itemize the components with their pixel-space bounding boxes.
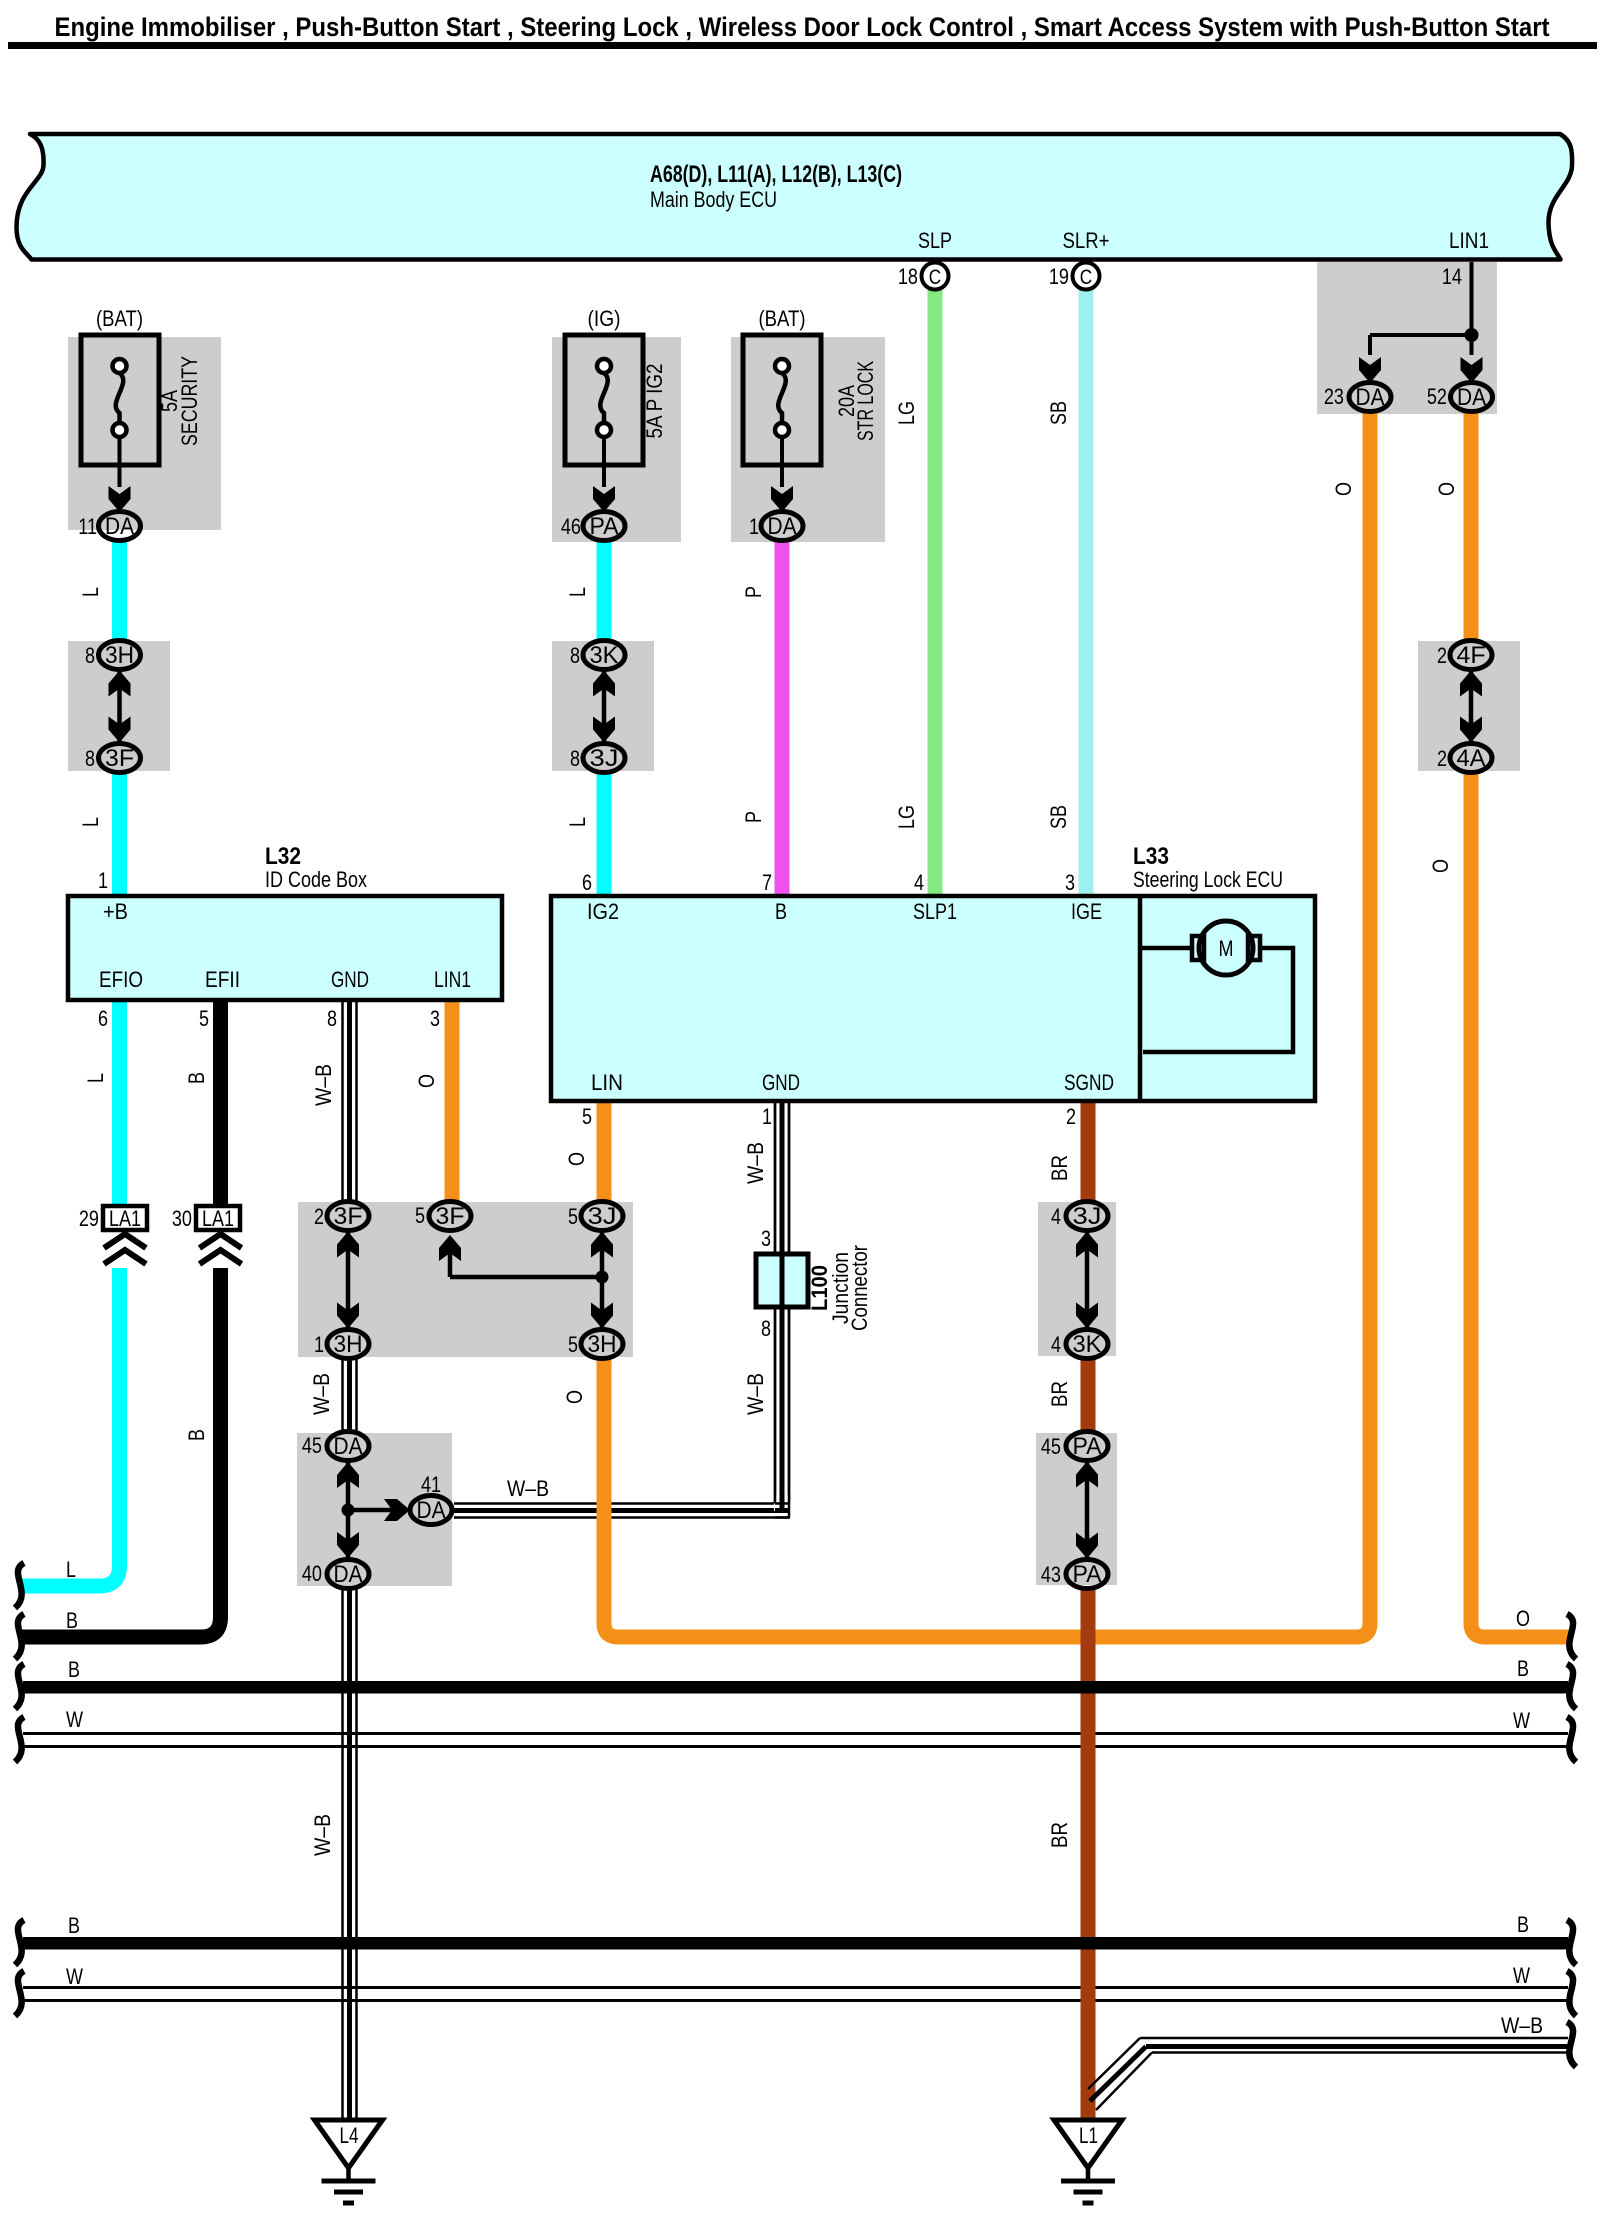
svg-text:5: 5 bbox=[568, 1204, 578, 1229]
svg-text:4: 4 bbox=[914, 870, 924, 895]
svg-text:IGE: IGE bbox=[1071, 899, 1102, 924]
svg-text:L: L bbox=[66, 1557, 76, 1582]
svg-text:5: 5 bbox=[582, 1104, 592, 1129]
svg-text:B: B bbox=[184, 1429, 209, 1441]
svg-text:L: L bbox=[565, 587, 590, 597]
svg-text:O: O bbox=[562, 1390, 587, 1404]
svg-text:DA: DA bbox=[768, 513, 797, 540]
svg-text:LIN1: LIN1 bbox=[1449, 228, 1489, 253]
svg-text:45: 45 bbox=[302, 1433, 322, 1458]
svg-text:W: W bbox=[66, 1707, 83, 1732]
svg-text:B: B bbox=[68, 1913, 80, 1938]
svg-text:Engine Immobiliser , Push-Butt: Engine Immobiliser , Push-Button Start ,… bbox=[55, 12, 1550, 42]
svg-text:1: 1 bbox=[98, 868, 108, 893]
svg-text:3: 3 bbox=[761, 1226, 771, 1251]
svg-text:O: O bbox=[564, 1152, 589, 1166]
svg-text:1: 1 bbox=[762, 1104, 772, 1129]
svg-text:46: 46 bbox=[561, 514, 581, 539]
svg-text:PA: PA bbox=[1073, 1433, 1102, 1460]
svg-text:4A: 4A bbox=[1457, 745, 1486, 772]
svg-text:O: O bbox=[1331, 482, 1356, 496]
svg-text:GND: GND bbox=[331, 967, 369, 992]
svg-text:(IG): (IG) bbox=[588, 306, 621, 331]
svg-text:C: C bbox=[1080, 266, 1092, 289]
svg-text:8: 8 bbox=[761, 1316, 771, 1341]
svg-text:BR: BR bbox=[1047, 1155, 1072, 1181]
svg-text:O: O bbox=[1434, 482, 1459, 496]
svg-text:L: L bbox=[78, 817, 103, 827]
svg-text:L: L bbox=[83, 1073, 108, 1083]
svg-text:PA: PA bbox=[1073, 1561, 1102, 1588]
svg-text:8: 8 bbox=[85, 746, 95, 771]
svg-text:45: 45 bbox=[1041, 1434, 1061, 1459]
svg-text:W–B: W–B bbox=[310, 1814, 335, 1856]
svg-text:B: B bbox=[1517, 1656, 1529, 1681]
svg-text:B: B bbox=[1517, 1912, 1529, 1937]
svg-text:18: 18 bbox=[898, 264, 918, 289]
svg-text:W–B: W–B bbox=[507, 1476, 549, 1501]
svg-text:SLP1: SLP1 bbox=[913, 899, 957, 924]
svg-text:SECURITY: SECURITY bbox=[177, 356, 202, 446]
svg-text:BR: BR bbox=[1047, 1822, 1072, 1848]
svg-text:LG: LG bbox=[894, 805, 919, 829]
svg-text:O: O bbox=[414, 1074, 439, 1088]
svg-text:DA: DA bbox=[334, 1433, 363, 1460]
svg-text:3J: 3J bbox=[588, 1203, 617, 1230]
svg-text:PA: PA bbox=[590, 513, 619, 540]
svg-text:EFIO: EFIO bbox=[99, 967, 143, 992]
svg-text:M: M bbox=[1219, 936, 1234, 961]
svg-text:5A P IG2: 5A P IG2 bbox=[642, 364, 667, 439]
svg-text:W–B: W–B bbox=[311, 1064, 336, 1106]
svg-text:LIN1: LIN1 bbox=[434, 967, 471, 992]
svg-text:ID Code Box: ID Code Box bbox=[265, 867, 367, 892]
svg-text:L32: L32 bbox=[265, 843, 301, 870]
svg-text:SLP: SLP bbox=[918, 228, 952, 253]
svg-text:3H: 3H bbox=[105, 642, 134, 669]
svg-text:7: 7 bbox=[762, 870, 772, 895]
svg-text:Main Body ECU: Main Body ECU bbox=[650, 187, 777, 212]
svg-text:C: C bbox=[929, 266, 941, 289]
svg-text:8: 8 bbox=[570, 643, 580, 668]
svg-text:P: P bbox=[741, 586, 766, 598]
svg-text:L4: L4 bbox=[340, 2123, 359, 2148]
svg-text:41: 41 bbox=[421, 1472, 441, 1497]
svg-text:11: 11 bbox=[78, 514, 97, 539]
svg-text:3F: 3F bbox=[105, 745, 134, 772]
svg-text:2: 2 bbox=[1437, 643, 1447, 668]
svg-text:8: 8 bbox=[327, 1006, 337, 1031]
svg-text:Steering Lock ECU: Steering Lock ECU bbox=[1133, 867, 1283, 892]
svg-text:5: 5 bbox=[568, 1332, 578, 1357]
svg-text:L: L bbox=[565, 817, 590, 827]
svg-text:3F: 3F bbox=[334, 1203, 363, 1230]
svg-text:4: 4 bbox=[1051, 1204, 1061, 1229]
svg-text:3H: 3H bbox=[588, 1331, 617, 1358]
svg-text:B: B bbox=[68, 1657, 80, 1682]
svg-text:EFII: EFII bbox=[205, 967, 240, 992]
svg-text:GND: GND bbox=[762, 1070, 800, 1095]
svg-text:O: O bbox=[1428, 859, 1453, 873]
svg-text:1: 1 bbox=[314, 1332, 324, 1357]
svg-text:A68(D), L11(A), L12(B), L13(C): A68(D), L11(A), L12(B), L13(C) bbox=[650, 161, 902, 188]
svg-text:W–B: W–B bbox=[743, 1142, 768, 1184]
svg-text:+B: +B bbox=[103, 899, 128, 924]
svg-text:SLR+: SLR+ bbox=[1063, 228, 1110, 253]
svg-text:2: 2 bbox=[1066, 1104, 1076, 1129]
svg-text:LA1: LA1 bbox=[202, 1206, 234, 1231]
svg-text:6: 6 bbox=[582, 870, 592, 895]
svg-text:8: 8 bbox=[570, 746, 580, 771]
svg-text:DA: DA bbox=[334, 1561, 363, 1588]
svg-text:W: W bbox=[1513, 1708, 1530, 1733]
svg-text:3J: 3J bbox=[1073, 1203, 1102, 1230]
svg-text:B: B bbox=[66, 1608, 78, 1633]
svg-text:19: 19 bbox=[1049, 264, 1069, 289]
svg-text:1: 1 bbox=[749, 514, 759, 539]
svg-text:2: 2 bbox=[314, 1204, 324, 1229]
svg-text:(BAT): (BAT) bbox=[96, 306, 143, 331]
svg-text:29: 29 bbox=[79, 1206, 99, 1231]
svg-text:B: B bbox=[775, 899, 787, 924]
svg-text:LA1: LA1 bbox=[109, 1206, 141, 1231]
svg-text:DA: DA bbox=[1457, 384, 1486, 411]
svg-text:3K: 3K bbox=[1073, 1331, 1102, 1358]
svg-text:6: 6 bbox=[98, 1006, 108, 1031]
svg-text:23: 23 bbox=[1324, 384, 1344, 409]
svg-text:3F: 3F bbox=[436, 1203, 465, 1230]
svg-text:B: B bbox=[184, 1072, 209, 1084]
svg-text:L: L bbox=[78, 587, 103, 597]
svg-text:L1: L1 bbox=[1079, 2123, 1098, 2148]
svg-text:DA: DA bbox=[105, 513, 134, 540]
svg-text:L33: L33 bbox=[1133, 843, 1169, 870]
svg-text:SGND: SGND bbox=[1064, 1070, 1114, 1095]
svg-text:2: 2 bbox=[1437, 746, 1447, 771]
svg-text:30: 30 bbox=[172, 1206, 192, 1231]
svg-text:4F: 4F bbox=[1457, 642, 1486, 669]
svg-text:W–B: W–B bbox=[743, 1373, 768, 1415]
svg-text:3J: 3J bbox=[590, 745, 619, 772]
svg-text:8: 8 bbox=[85, 643, 95, 668]
svg-text:P: P bbox=[741, 811, 766, 823]
svg-text:SB: SB bbox=[1046, 401, 1071, 425]
svg-text:STR LOCK: STR LOCK bbox=[853, 361, 878, 441]
svg-text:5: 5 bbox=[199, 1006, 209, 1031]
svg-text:SB: SB bbox=[1046, 805, 1071, 829]
svg-text:40: 40 bbox=[302, 1561, 322, 1586]
svg-text:3H: 3H bbox=[334, 1331, 363, 1358]
svg-text:W–B: W–B bbox=[1501, 2013, 1543, 2038]
svg-text:43: 43 bbox=[1041, 1562, 1061, 1587]
svg-text:DA: DA bbox=[1356, 384, 1385, 411]
svg-text:3: 3 bbox=[1065, 870, 1075, 895]
svg-text:IG2: IG2 bbox=[587, 899, 619, 924]
svg-text:BR: BR bbox=[1047, 1381, 1072, 1407]
svg-text:3K: 3K bbox=[590, 642, 619, 669]
svg-text:52: 52 bbox=[1427, 384, 1447, 409]
svg-text:W: W bbox=[1513, 1963, 1530, 1988]
svg-text:W–B: W–B bbox=[309, 1373, 334, 1415]
svg-text:LIN: LIN bbox=[591, 1070, 623, 1095]
svg-text:O: O bbox=[1516, 1606, 1530, 1631]
svg-text:LG: LG bbox=[894, 401, 919, 425]
svg-text:W: W bbox=[66, 1964, 83, 1989]
svg-text:4: 4 bbox=[1051, 1332, 1061, 1357]
svg-text:5: 5 bbox=[415, 1203, 425, 1228]
svg-text:(BAT): (BAT) bbox=[759, 306, 806, 331]
svg-text:DA: DA bbox=[417, 1497, 446, 1524]
svg-text:3: 3 bbox=[430, 1006, 440, 1031]
svg-text:Connector: Connector bbox=[847, 1245, 872, 1331]
svg-text:14: 14 bbox=[1442, 264, 1462, 289]
